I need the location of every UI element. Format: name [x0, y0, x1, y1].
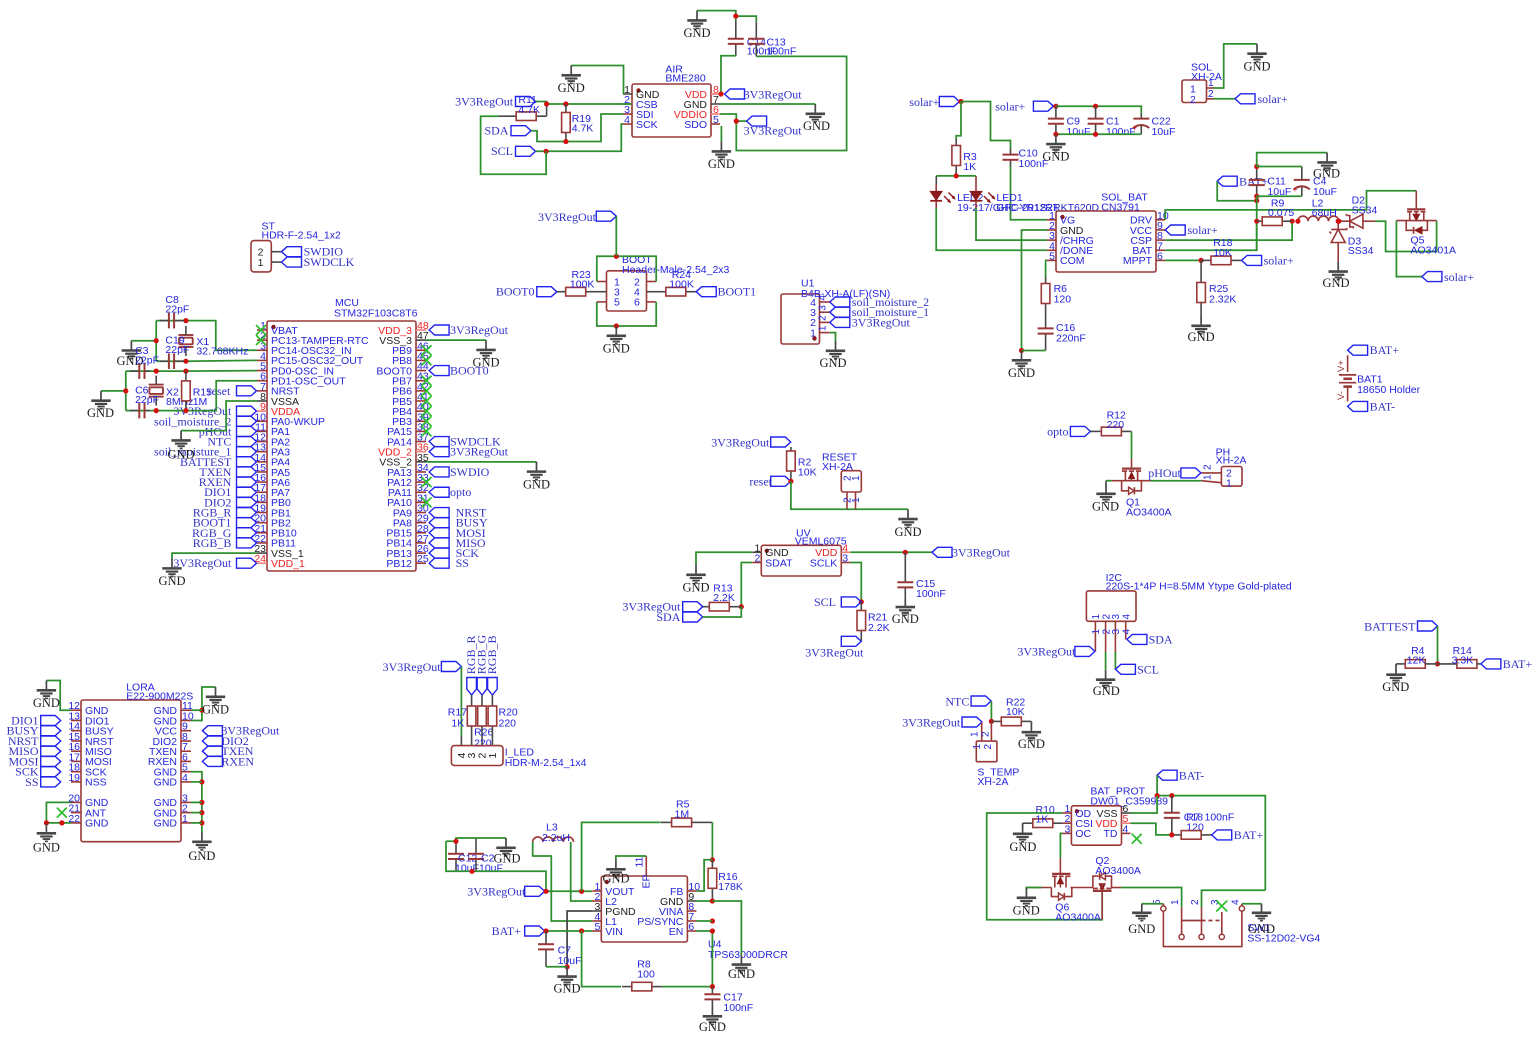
net flag solar+ (input caps) — [995, 100, 1058, 114]
ground GND (C7/PGND) — [553, 967, 580, 996]
wire Q1 source to ground — [1106, 481, 1112, 484]
svg-text:10K: 10K — [1006, 706, 1025, 718]
net flag RGB_R (pin19) — [193, 506, 257, 520]
svg-text:RGB_B: RGB_B — [193, 536, 232, 550]
svg-text:3V3RegOut: 3V3RegOut — [450, 445, 509, 459]
net flag reset (R2 bottom) — [749, 474, 793, 488]
wire VSS_3 pin47 to ground — [426, 339, 486, 341]
svg-text:4: 4 — [182, 772, 188, 784]
svg-text:SWDIO: SWDIO — [450, 465, 490, 479]
svg-text:1K: 1K — [451, 717, 464, 729]
wire R5 right down to FB node — [710, 822, 715, 862]
svg-text:pHOut: pHOut — [1148, 466, 1181, 480]
svg-text:GND: GND — [1042, 150, 1069, 164]
net flag BAT+ (VIN) — [492, 924, 545, 938]
svg-text:11: 11 — [634, 856, 646, 867]
capacitor C2 10uF — [468, 838, 503, 875]
svg-text:SCL: SCL — [814, 595, 836, 609]
IC BAT_PROT DW01_C359989 — [1062, 786, 1168, 846]
svg-text:BOOT0: BOOT0 — [496, 285, 535, 299]
svg-text:1: 1 — [1203, 474, 1214, 480]
svg-text:120: 120 — [1054, 293, 1072, 305]
net flag 3V3RegOut (LORA VCC) — [202, 724, 280, 738]
resistor R13 2.2K — [703, 583, 742, 612]
net flag TXEN (pin15) — [199, 465, 256, 479]
svg-text:3: 3 — [1065, 823, 1071, 835]
wire 3V3RegOut down to BOOT loop — [615, 216, 617, 256]
svg-text:BOOT1: BOOT1 — [718, 285, 757, 299]
svg-text:1M: 1M — [193, 396, 208, 408]
svg-text:TD: TD — [1104, 828, 1118, 840]
ground GND (FB divider) — [728, 955, 755, 981]
capacitor C13 100nF — [748, 22, 796, 58]
svg-text:SDA: SDA — [656, 610, 680, 624]
svg-text:SCK: SCK — [636, 119, 658, 131]
net flag 3V3RegOut (CSB pullup) — [455, 95, 535, 109]
ground GND (EP) — [602, 860, 629, 886]
net flag SCL (UV) — [814, 595, 861, 609]
net flag SCL (I2C pin3) — [1115, 652, 1159, 676]
svg-text:3V3RegOut: 3V3RegOut — [744, 124, 803, 138]
wire X1 bottom net (C19/pin4) — [156, 359, 257, 364]
transistor Q2 AO3400A — [1093, 855, 1141, 920]
svg-text:3V3RegOut: 3V3RegOut — [711, 435, 770, 449]
no-connect X TD pin4 — [1132, 834, 1142, 844]
wire R12 to Q1 gate — [1131, 431, 1133, 458]
svg-text:220: 220 — [1107, 419, 1125, 431]
resistor R3 1K — [952, 139, 977, 176]
svg-text:BOOT0: BOOT0 — [450, 364, 489, 378]
resistor R14 3.3K — [1438, 645, 1481, 668]
svg-text:+: + — [1132, 123, 1137, 133]
crystal X2 8MHz — [149, 376, 194, 408]
wire CSP pin8 to R9 right — [1165, 219, 1295, 241]
wire LORA pins 5-1 GND rail to ground — [191, 772, 204, 832]
ground GND (R10) — [1009, 824, 1036, 854]
svg-text:GND: GND — [603, 342, 630, 356]
svg-text:1: 1 — [487, 753, 499, 759]
net flag BUSY (pin29) — [429, 516, 488, 530]
svg-text:BAT+: BAT+ — [492, 924, 522, 938]
svg-text:SWDCLK: SWDCLK — [304, 255, 355, 269]
net flag solar+ (MPPT) — [1242, 253, 1294, 267]
wire BAT+ to battery rail — [1217, 181, 1259, 203]
wire EP to ground — [616, 856, 646, 860]
ground GND (Q1) — [1092, 484, 1119, 514]
svg-text:4: 4 — [624, 114, 630, 126]
svg-text:1: 1 — [970, 731, 981, 737]
wire C7 bottom to ground — [546, 966, 567, 968]
svg-text:GND: GND — [85, 818, 109, 830]
wire VSS_1 pin23 to ground — [172, 553, 257, 559]
capacitor C12 10uF — [448, 841, 479, 874]
wire X2 left rail to ground — [101, 371, 128, 411]
wire CN3791 GND pin2 to ground — [1019, 230, 1047, 353]
net flag NRST (LORA pin15) — [8, 734, 61, 748]
svg-text:220S-1*4P H=8.5MM Ytype Gold-p: 220S-1*4P H=8.5MM Ytype Gold-plated — [1106, 580, 1292, 592]
svg-text:solar+: solar+ — [995, 100, 1025, 114]
svg-text:1: 1 — [851, 475, 862, 481]
svg-text:6: 6 — [634, 297, 640, 309]
svg-text:4: 4 — [1123, 823, 1129, 835]
svg-text:GND: GND — [602, 872, 629, 886]
svg-text:GND: GND — [803, 119, 830, 133]
wire LED1 cathode to /CHRG pin3 — [976, 208, 1047, 240]
capacitor C14 100nF — [728, 21, 777, 58]
LED LED1 GFC-2012RRKT620D — [970, 184, 1099, 214]
net flag BATTEST (pin14) — [180, 455, 256, 469]
ground GND (CN3791) — [1008, 351, 1035, 381]
wire DRV pin10 to Q5 gate — [1165, 191, 1416, 220]
wire reset node to RESET connector and ground — [791, 481, 908, 509]
svg-text:100nF: 100nF — [916, 588, 946, 600]
svg-text:3V3RegOut: 3V3RegOut — [383, 660, 442, 674]
wire LORA pin20/21/22 to ground — [44, 802, 71, 825]
wire SCL to SCK pin4 — [536, 124, 624, 154]
net flag SWDCLK (ST pin1) — [282, 255, 355, 269]
net flag RGB_B (rotated) — [485, 636, 499, 695]
net flag DIO2 (pin18) — [204, 495, 256, 509]
svg-text:GND: GND — [202, 703, 229, 717]
resistor R15 1M — [182, 371, 213, 411]
wire VDD pin5 to R7/C18 node — [1131, 823, 1175, 837]
transistor Q6 AO3400A — [1051, 858, 1100, 924]
net flag MOSI (pin28) — [429, 526, 486, 540]
svg-text:GND: GND — [154, 777, 178, 789]
capacitor C16 220nF — [1038, 322, 1086, 351]
wire 3V3RegOut down to I_LED pin4 — [460, 667, 462, 746]
wire C13 bottom loop to VDDIO pin6 — [720, 56, 847, 150]
connector U1 B4B-XH-A(LF)(SN) — [781, 278, 890, 345]
net flag RXEN (LORA pin6) — [202, 754, 254, 768]
svg-text:3V3RegOut: 3V3RegOut — [173, 556, 232, 570]
net flag SDA (I2C pin4) — [1127, 633, 1173, 647]
ground GND (right of BME280) — [803, 104, 830, 133]
wire PGND pin3 to ground — [565, 911, 593, 969]
net flag MOSI (LORA pin17) — [8, 754, 60, 768]
svg-text:BAT-: BAT- — [1179, 768, 1205, 782]
net flag solar+ (LED/C10 feed) — [909, 95, 963, 109]
svg-text:100K: 100K — [669, 279, 694, 291]
svg-text:HDR-M-2.54_1x4: HDR-M-2.54_1x4 — [505, 757, 587, 769]
svg-text:VIN: VIN — [605, 926, 623, 938]
ground GND (top of C13/C14) — [683, 11, 710, 40]
svg-text:GND: GND — [188, 849, 215, 863]
wire FB pin10 to node — [696, 860, 712, 891]
net flag reset (pin7 NRST) — [208, 384, 257, 398]
ground GND (LORA pin1) — [188, 832, 215, 863]
svg-text:GND: GND — [87, 406, 114, 420]
net flag 3V3RegOut (R2 top) — [711, 435, 790, 449]
svg-text:BAT-: BAT- — [1370, 399, 1396, 413]
net flag pHOut (pin11) — [199, 424, 257, 438]
ground GND (C17) — [699, 1007, 726, 1035]
wire UV VDD pin4 node — [850, 550, 932, 555]
svg-text:3V3RegOut: 3V3RegOut — [450, 323, 509, 337]
net flag SS (pin25) — [429, 556, 469, 570]
no-connect X SW1 pin3 — [1216, 901, 1227, 921]
svg-text:10uF: 10uF — [558, 955, 582, 967]
wire C16 bottom to GND rail — [1022, 350, 1046, 352]
wire X2 top net (pin5) — [126, 369, 257, 374]
net flag 3V3RegOut (VDD_3 pin48) — [429, 323, 509, 337]
wire R3 bottom to LED anodes — [936, 173, 976, 184]
svg-text:22pF: 22pF — [135, 394, 159, 406]
net flag SWDIO (pin34) — [429, 465, 490, 479]
net flag BAT+ (protection) — [1212, 828, 1264, 842]
svg-text:GND: GND — [167, 447, 194, 461]
ground GND (R4) — [1382, 664, 1409, 694]
svg-text:XH-2A: XH-2A — [822, 461, 853, 473]
no-connect X pins 1,2 — [256, 325, 266, 345]
net flag pHOut (PH pin2) — [1148, 466, 1221, 480]
wire VOUT up to R5 — [582, 822, 661, 891]
svg-text:100: 100 — [637, 969, 655, 981]
svg-text:5: 5 — [1049, 250, 1055, 262]
net flag BAT+ (battery) — [1348, 343, 1400, 357]
net flag solar+ (SOL pin2) — [1214, 92, 1288, 106]
wire BAT- / VSS net — [1131, 775, 1266, 890]
net flag SCK (LORA pin18) — [15, 765, 61, 779]
svg-text:AO3401A: AO3401A — [1411, 245, 1457, 257]
wire LORA pin12 GND to ground — [46, 681, 71, 711]
svg-text:100nF: 100nF — [1205, 811, 1235, 823]
capacitor C4 10uF (polarized) — [1292, 167, 1337, 198]
svg-text:4.7K: 4.7K — [572, 123, 594, 135]
net flag 3V3RegOut (VDD pin8) — [725, 87, 803, 101]
wire LORA pin11/10 to ground — [191, 687, 216, 721]
net flag soil_moisture_1 (pin13) — [154, 445, 256, 459]
svg-text:2: 2 — [1208, 89, 1214, 100]
svg-text:4: 4 — [1122, 629, 1133, 635]
wire VSSA pin8 to ground — [181, 401, 257, 431]
capacitor C8 22pF — [160, 294, 189, 328]
svg-text:2.2uH: 2.2uH — [542, 832, 570, 844]
svg-text:3V3RegOut: 3V3RegOut — [455, 95, 514, 109]
svg-text:AO3400A: AO3400A — [1126, 507, 1172, 519]
svg-text:solar+: solar+ — [1264, 253, 1294, 267]
wire C14 bottom to VDD pin8 — [718, 56, 735, 97]
wire X2 bottom net (pin6) — [126, 381, 257, 414]
net flag 3V3RegOut (VDDIO) — [734, 116, 803, 137]
wire C4 bottom to battery node — [1257, 195, 1302, 197]
svg-text:10uF: 10uF — [1313, 186, 1337, 198]
IC UV VEML6075 — [752, 528, 850, 577]
net flag SCL — [491, 144, 536, 158]
ground GND (Q6) — [1013, 888, 1040, 918]
svg-text:opto: opto — [450, 485, 471, 499]
svg-text:RGB_B: RGB_B — [485, 636, 499, 675]
svg-text:0.075: 0.075 — [1268, 207, 1294, 219]
crystal X1 32.768KHz — [178, 326, 248, 358]
ground GND (below SDO) — [708, 142, 735, 172]
svg-text:1: 1 — [258, 257, 264, 269]
net flag BAT+ (charger) — [1217, 174, 1268, 188]
svg-text:19: 19 — [68, 772, 80, 784]
ground GND (input caps) — [1042, 134, 1069, 163]
ground GND (X2) — [87, 391, 114, 420]
capacitor C9 10uF — [1048, 106, 1091, 138]
capacitor C17 100nF — [704, 987, 753, 1014]
wire SDA to SDI pin3 — [531, 114, 623, 144]
wire solar+ down to R3 — [956, 102, 961, 140]
svg-text:XH-2A: XH-2A — [1191, 71, 1222, 83]
ground GND (SW1 right) — [1248, 904, 1275, 936]
svg-text:RXEN: RXEN — [221, 754, 254, 768]
wire SW1 pin5 to ground — [1142, 904, 1164, 906]
wire X1 top net (C8/pin3) — [156, 318, 257, 350]
net flag SS (LORA pin19) — [25, 775, 61, 789]
resistor R9 0.075 — [1257, 198, 1295, 226]
svg-text:GND: GND — [1128, 922, 1155, 936]
svg-text:25: 25 — [417, 553, 429, 565]
svg-text:opto: opto — [1047, 424, 1068, 438]
svg-text:AO3400A: AO3400A — [1095, 865, 1141, 877]
wire BME280 pin1 GND up to ground — [571, 66, 623, 95]
wire VIN node — [543, 928, 592, 933]
net flag NTC (pin12) — [207, 435, 256, 449]
svg-text:4: 4 — [818, 295, 829, 301]
svg-text:GND: GND — [819, 356, 846, 370]
svg-text:2.2K: 2.2K — [713, 592, 735, 604]
svg-text:XH-2A: XH-2A — [1216, 454, 1247, 466]
net flag soil_moisture_2 (U1 pin4) — [830, 295, 929, 309]
ground GND (LORA pin11) — [202, 687, 229, 717]
svg-text:TPS63000DRCR: TPS63000DRCR — [708, 949, 788, 961]
svg-text:GND: GND — [894, 525, 921, 539]
svg-text:GND: GND — [33, 841, 60, 855]
svg-text:1K: 1K — [963, 161, 976, 173]
svg-text:NSS: NSS — [85, 777, 107, 789]
ground GND (U1) — [819, 341, 846, 370]
net flag 3V3RegOut (UV VDD) — [932, 546, 1011, 560]
svg-text:HDR-F-2.54_1x2: HDR-F-2.54_1x2 — [262, 230, 342, 242]
svg-text:BATTEST: BATTEST — [1364, 619, 1416, 633]
svg-text:GFC-2012RRKT620D: GFC-2012RRKT620D — [996, 202, 1099, 214]
svg-text:GND: GND — [892, 612, 919, 626]
ground GND (I2C) — [1093, 670, 1120, 698]
svg-text:reset: reset — [749, 474, 772, 488]
net flag 3V3RegOut (R21 bottom) — [805, 636, 864, 659]
wire input cap bottom rail to ground — [1053, 132, 1141, 137]
capacitor C7 10uF — [538, 931, 582, 967]
resistor R21 2.2K — [857, 602, 890, 641]
wire C12/C2 top rail to ground — [446, 838, 506, 844]
net flag solar+ (VCC pin9) — [1165, 223, 1218, 237]
svg-text:GND: GND — [523, 477, 550, 491]
svg-text:6: 6 — [688, 921, 694, 933]
ground GND (VSSA) — [167, 431, 194, 462]
net flag solar+ (Q5 out) — [1422, 270, 1474, 284]
svg-text:1: 1 — [1170, 899, 1181, 905]
svg-text:EN: EN — [669, 926, 684, 938]
resistor R10 1K — [1023, 804, 1063, 828]
svg-text:BAT+: BAT+ — [1234, 828, 1264, 842]
net flag BAT+ (divider) — [1481, 657, 1532, 671]
svg-text:2.2K: 2.2K — [868, 622, 890, 634]
svg-text:3V3RegOut: 3V3RegOut — [902, 715, 961, 729]
svg-text:OC: OC — [1075, 828, 1091, 840]
net flag MISO (pin27) — [429, 536, 486, 550]
net flag RGB_B (pin22) — [193, 536, 257, 550]
capacitor C15 100nF — [897, 552, 945, 600]
svg-text:3: 3 — [818, 305, 829, 311]
wire SW1 pin4 to ground — [1242, 904, 1262, 906]
wire C12/C2 bottom rail to VOUT — [446, 841, 546, 891]
net flag RGB_R (rotated) — [464, 636, 478, 695]
svg-text:3V3RegOut: 3V3RegOut — [744, 87, 803, 101]
net flag 3V3RegOut (VDD_2 pin36) — [429, 445, 509, 459]
svg-text:V-: V- — [1336, 391, 1347, 400]
wire pin5 SDO down to ground — [720, 126, 722, 142]
net flag 3V3RegOut (pin24) — [173, 556, 256, 570]
net flag RXEN (pin16) — [199, 475, 257, 489]
wire NTC down to R22 node — [989, 701, 994, 724]
svg-text:6: 6 — [1157, 250, 1163, 262]
capacitor C10 100nF — [1003, 148, 1049, 170]
wire Q1 drain to PH pin1 — [1151, 481, 1222, 483]
svg-text:SDA: SDA — [484, 124, 508, 138]
net flag NRST (pin30) — [429, 506, 487, 520]
svg-text:solar+: solar+ — [1188, 223, 1218, 237]
net flag SWDCLK (pin37) — [429, 435, 501, 449]
svg-text:4: 4 — [1230, 899, 1241, 905]
svg-text:1: 1 — [1226, 478, 1232, 490]
wire OD pin1 to Q2 gate — [987, 813, 1102, 920]
svg-text:solar+: solar+ — [1258, 92, 1288, 106]
ground GND (C12/C2) — [493, 838, 520, 866]
ground GND (UV) — [682, 565, 709, 595]
svg-text:220: 220 — [499, 717, 517, 729]
wire C10 bottom to CN3791 VG pin1 — [1011, 166, 1047, 220]
svg-text:178K: 178K — [718, 881, 743, 893]
svg-text:GND: GND — [1188, 330, 1215, 344]
svg-text:SDA: SDA — [1149, 633, 1173, 647]
net flag BOOT1 (header) — [696, 285, 756, 299]
svg-text:3V3RegOut: 3V3RegOut — [538, 210, 597, 224]
svg-text:22pF: 22pF — [135, 354, 159, 366]
svg-text:1: 1 — [851, 497, 862, 503]
svg-text:SS: SS — [456, 556, 469, 570]
wire pin7 GND to ground — [720, 103, 815, 105]
wire R10 left to ground — [1022, 823, 1024, 825]
IC AIR BME280 — [623, 64, 720, 137]
capacitor C18 100nF — [1164, 796, 1234, 835]
svg-text:GND: GND — [683, 26, 710, 40]
net flag TXEN (LORA pin7) — [202, 744, 253, 758]
svg-text:1: 1 — [818, 325, 829, 331]
svg-text:EP: EP — [641, 874, 653, 888]
wire R16 bottom / GND pin9 node — [696, 898, 741, 954]
svg-text:SCLK: SCLK — [810, 557, 837, 569]
svg-text:3V3RegOut: 3V3RegOut — [805, 646, 864, 660]
net flag 3V3RegOut (U1 pin2) — [830, 315, 911, 329]
svg-text:2: 2 — [754, 553, 760, 565]
svg-text:4: 4 — [1122, 614, 1133, 620]
svg-text:SCL: SCL — [1137, 662, 1159, 676]
svg-text:GND: GND — [1092, 500, 1119, 514]
svg-text:solar+: solar+ — [909, 95, 939, 109]
svg-text:GND: GND — [1382, 680, 1409, 694]
svg-text:220: 220 — [474, 737, 492, 749]
svg-text:1: 1 — [182, 813, 188, 825]
net flag 3V3RegOut (I_LED) — [383, 660, 462, 674]
wire BATTEST down to divider — [1435, 626, 1440, 667]
capacitor C3 22pF — [130, 345, 159, 379]
wire R8 to EN/PS-SYNC — [696, 918, 715, 989]
wire BOOT pins 1-2 top loop — [597, 254, 656, 282]
svg-text:MPPT: MPPT — [1123, 255, 1153, 267]
